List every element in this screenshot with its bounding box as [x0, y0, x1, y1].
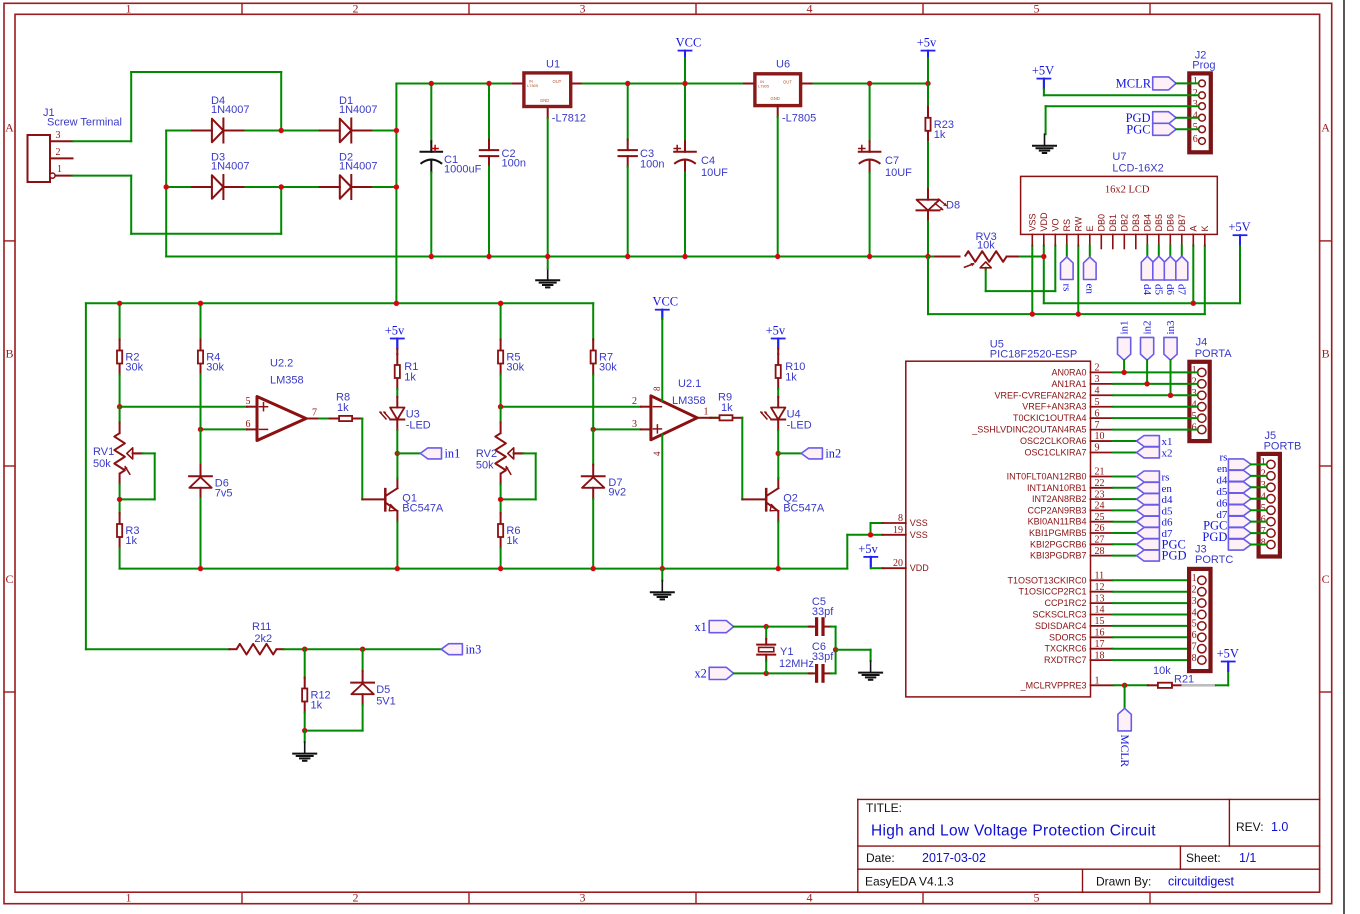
svg-text:RV1: RV1: [93, 446, 114, 458]
ground at U1: [547, 269, 549, 281]
wire bridge row1: [166, 130, 190, 132]
svg-text:d6: d6: [1216, 497, 1228, 509]
wire bridge right vertical to VCC rail: [395, 84, 397, 304]
svg-text:PORTC: PORTC: [1195, 554, 1233, 566]
wire MCLR flag stub: [1124, 685, 1126, 708]
svg-text:BC547A: BC547A: [402, 503, 444, 515]
resistor R8 1k: [330, 418, 340, 420]
svg-text:11: 11: [1095, 571, 1105, 582]
wire J2 pin3 to ground: [1046, 105, 1199, 107]
svg-text:d5: d5: [1216, 486, 1228, 498]
svg-text:24: 24: [1095, 501, 1105, 512]
svg-text:Sheet:: Sheet:: [1186, 851, 1221, 865]
port flags rs en d4 d5 d6 d7 PGC PGD at U5 port B: [1113, 476, 1137, 478]
regulator U6 -L7805: [744, 83, 753, 85]
svg-text:x1: x1: [695, 620, 707, 634]
power +5v at R10: [772, 338, 785, 340]
port flag x1 at crystal: [709, 621, 734, 633]
svg-text:LCD-16X2: LCD-16X2: [1112, 163, 1163, 175]
svg-text:2: 2: [1192, 377, 1197, 388]
svg-text:SCKSCLRC3: SCKSCLRC3: [1032, 610, 1086, 620]
svg-text:100n: 100n: [502, 158, 526, 170]
resistor R11 2k2: [229, 648, 236, 650]
svg-text:4: 4: [1261, 492, 1266, 503]
wire U5 RC to J3: [1113, 579, 1198, 581]
svg-text:4: 4: [807, 891, 813, 905]
svg-text:J4: J4: [1196, 337, 1208, 349]
svg-text:EasyEDA V4.1.3: EasyEDA V4.1.3: [865, 875, 954, 889]
capacitor C6 33pf: [809, 672, 817, 674]
power +5v top: [922, 50, 935, 52]
svg-text:T1OSICCP2RC1: T1OSICCP2RC1: [1018, 587, 1086, 597]
svg-text:5: 5: [1193, 122, 1198, 133]
svg-text:VCC: VCC: [652, 295, 678, 309]
regulator U1 -L7812: [513, 83, 522, 85]
svg-text:OUT: OUT: [553, 79, 562, 84]
svg-text:DB2: DB2: [1120, 214, 1130, 232]
svg-text:6: 6: [1192, 630, 1197, 641]
capacitor C2 100n: [488, 84, 490, 140]
transistor Q1 BC547A: [384, 489, 387, 510]
svg-text:100n: 100n: [640, 159, 664, 171]
svg-text:9v2: 9v2: [608, 487, 626, 499]
svg-text:+5V: +5V: [1217, 646, 1239, 660]
svg-text:Drawn By:: Drawn By:: [1096, 875, 1151, 889]
node RV3/VDD junction: [1041, 254, 1046, 259]
svg-text:3: 3: [56, 130, 61, 141]
wire PGC to J2 pin5: [1176, 128, 1199, 130]
capacitor C5 33pf: [809, 626, 817, 628]
diode D2 1N4007: [318, 186, 340, 188]
svg-text:OUT: OUT: [783, 80, 792, 85]
svg-text:1k: 1k: [785, 372, 797, 384]
svg-text:1: 1: [1192, 365, 1197, 376]
svg-text:10: 10: [1095, 431, 1105, 442]
crystal Y1 12MHz: [765, 627, 767, 639]
svg-text:VREF-CVREFAN2RA2: VREF-CVREFAN2RA2: [994, 390, 1086, 400]
resistor R9 1k: [710, 417, 720, 419]
svg-text:2: 2: [632, 396, 637, 407]
frame column ticks top: [241, 3, 243, 14]
svg-text:22: 22: [1095, 478, 1105, 489]
svg-text:GND: GND: [771, 96, 780, 101]
capacitor C4 10UF: [684, 84, 686, 142]
wire U1 GND: [547, 108, 549, 118]
svg-text:in2: in2: [825, 447, 841, 461]
svg-text:in1: in1: [1119, 320, 1131, 334]
diode D1 1N4007: [318, 130, 340, 132]
svg-text:T0CKIC1OUTRA4: T0CKIC1OUTRA4: [1013, 413, 1087, 423]
svg-text:R21: R21: [1174, 674, 1194, 686]
svg-text:4: 4: [1095, 385, 1100, 396]
U5 port C pins: [1091, 579, 1113, 581]
svg-text:VO: VO: [1051, 218, 1061, 231]
resistor R7 30k: [592, 303, 594, 339]
svg-text:2: 2: [1095, 363, 1100, 374]
wire flag en: [1089, 246, 1091, 257]
svg-text:INT2AN8RB2: INT2AN8RB2: [1032, 494, 1087, 504]
op-amp U2.1 LM358: [651, 396, 697, 440]
svg-text:KBI3PGDRB7: KBI3PGDRB7: [1030, 551, 1087, 561]
svg-text:rs: rs: [1219, 452, 1227, 464]
svg-text:KBI2PGCRB6: KBI2PGCRB6: [1030, 539, 1087, 549]
node Q2 collector junction: [776, 451, 781, 456]
svg-text:3: 3: [580, 2, 586, 16]
ground at R12: [304, 731, 306, 742]
svg-text:Prog: Prog: [1192, 60, 1215, 72]
wire grey segment after R21: [1182, 684, 1216, 687]
svg-text:REV:: REV:: [1236, 820, 1264, 834]
svg-text:1k: 1k: [311, 700, 323, 712]
svg-text:3: 3: [580, 891, 586, 905]
connector J2 Prog: [1189, 73, 1211, 152]
svg-text:d4: d4: [1141, 284, 1153, 296]
svg-text:U2.1: U2.1: [678, 378, 701, 390]
wire left long branch: [85, 303, 87, 649]
svg-text:MCLR: MCLR: [1118, 735, 1130, 768]
svg-text:18: 18: [1095, 650, 1105, 661]
svg-text:1: 1: [1095, 676, 1100, 687]
svg-text:2: 2: [353, 2, 359, 16]
wire Q1 emitter: [396, 511, 398, 521]
svg-text:PIC18F2520-ESP: PIC18F2520-ESP: [990, 348, 1077, 360]
svg-text:Screw Terminal: Screw Terminal: [47, 117, 122, 129]
svg-text:BC547A: BC547A: [783, 503, 825, 515]
svg-text:8: 8: [898, 513, 903, 524]
svg-text:25: 25: [1095, 512, 1105, 523]
port flag PGD: [1153, 112, 1176, 124]
svg-text:+5V: +5V: [1228, 220, 1250, 234]
zener D5 5V1: [362, 649, 364, 671]
IC U7 LCD-16X2: [1021, 176, 1218, 234]
svg-text:KBI1PGMRB5: KBI1PGMRB5: [1029, 528, 1087, 538]
svg-text:_SSHLVDINC2OUTAN4RA5: _SSHLVDINC2OUTAN4RA5: [971, 425, 1086, 435]
svg-text:5: 5: [1034, 891, 1040, 905]
svg-text:C4: C4: [701, 155, 715, 167]
svg-text:d6: d6: [1162, 517, 1174, 529]
svg-text:+5v: +5v: [858, 542, 878, 556]
svg-text:15: 15: [1095, 616, 1105, 627]
title block frame: [858, 798, 1320, 800]
svg-text:6: 6: [1095, 408, 1100, 419]
svg-text:DB7: DB7: [1177, 214, 1187, 232]
svg-text:1/1: 1/1: [1239, 851, 1256, 865]
svg-text:23: 23: [1095, 489, 1105, 500]
port flag PGC: [1153, 123, 1176, 135]
wire Q1 collector: [396, 478, 398, 488]
wire Q2 emitter: [777, 511, 779, 521]
wire J1 pin1 to bridge bottom: [73, 175, 132, 177]
svg-text:20: 20: [893, 558, 903, 569]
wire U2.2 output to R8: [306, 418, 319, 420]
wire left branch to R11: [86, 648, 230, 650]
svg-text:7: 7: [1261, 526, 1266, 537]
LED U4: [777, 397, 779, 408]
svg-text:in3: in3: [1165, 320, 1177, 335]
svg-text:R11: R11: [252, 621, 271, 633]
svg-text:33pf: 33pf: [812, 606, 834, 618]
svg-text:33pf: 33pf: [812, 651, 834, 663]
svg-text:en: en: [1217, 463, 1228, 475]
wire D5 to R12 bottom: [305, 730, 363, 732]
wire U5 RA0-RA5 to J4: [1113, 371, 1198, 373]
svg-text:5: 5: [1095, 397, 1100, 408]
svg-text:INT0FLT0AN12RB0: INT0FLT0AN12RB0: [1007, 472, 1087, 482]
node ground rail junctions: [429, 254, 434, 259]
wire RV1 wiper loop: [133, 452, 143, 454]
svg-text:4: 4: [807, 2, 813, 16]
potentiometer RV3 10k: [935, 256, 959, 258]
svg-text:4: 4: [652, 451, 662, 456]
svg-text:DB6: DB6: [1166, 214, 1176, 232]
svg-text:VSS: VSS: [1028, 213, 1038, 231]
svg-text:TXCKRC6: TXCKRC6: [1044, 644, 1086, 654]
wire R7 to op-amp pin3: [593, 428, 641, 430]
connector J4 PORTA: [1189, 362, 1209, 441]
wire R21 to +5V: [1216, 684, 1228, 686]
wire bridge row2: [166, 186, 190, 188]
svg-text:x2: x2: [695, 667, 707, 681]
svg-text:_MCLRVPPRE3: _MCLRVPPRE3: [1020, 680, 1087, 690]
port flag in1: [420, 448, 441, 459]
svg-text:10k: 10k: [977, 240, 995, 252]
power +5V right of LCD: [1239, 245, 1241, 304]
wire comparator bottom rail: [120, 568, 848, 570]
svg-text:A: A: [1321, 121, 1330, 135]
svg-text:rs: rs: [1060, 284, 1072, 292]
resistor R10 1k: [777, 349, 779, 354]
svg-text:7v5: 7v5: [215, 487, 233, 499]
svg-text:d5: d5: [1152, 284, 1164, 296]
svg-text:1k: 1k: [337, 402, 349, 414]
port flag in2 at U5: [1141, 337, 1154, 360]
svg-text:4: 4: [1193, 111, 1198, 122]
svg-text:4: 4: [1192, 607, 1197, 618]
svg-text:RXDTRC7: RXDTRC7: [1044, 655, 1087, 665]
svg-text:10k: 10k: [1153, 665, 1171, 677]
port flag rs: [1061, 257, 1074, 280]
zener D7 9v2: [592, 429, 594, 464]
svg-text:SDORC5: SDORC5: [1049, 632, 1087, 642]
svg-text:30k: 30k: [599, 362, 617, 374]
LED D8: [927, 189, 929, 200]
svg-text:+5V: +5V: [1032, 64, 1054, 78]
svg-text:-LED: -LED: [406, 420, 431, 432]
potentiometer RV1 50k: [119, 407, 121, 423]
node bridge junctions: [279, 128, 284, 133]
U5 port A pins: [1091, 371, 1113, 373]
svg-text:-L7805: -L7805: [782, 113, 816, 125]
svg-text:d4: d4: [1216, 475, 1228, 487]
resistor R2 30k: [119, 303, 121, 339]
svg-text:9: 9: [1095, 443, 1100, 454]
svg-text:U6: U6: [776, 59, 790, 71]
svg-text:E: E: [1085, 225, 1095, 231]
svg-text:30k: 30k: [506, 362, 524, 374]
wire U2.1 output to R9: [697, 417, 711, 419]
svg-text:C7: C7: [885, 155, 899, 167]
svg-text:VCC: VCC: [676, 36, 702, 50]
resistor R12 1k: [304, 649, 306, 678]
svg-text:L7805: L7805: [758, 83, 770, 88]
svg-text:High and Low Voltage Protectio: High and Low Voltage Protection Circuit: [871, 823, 1156, 840]
svg-text:5: 5: [1261, 503, 1266, 514]
svg-text:K: K: [1200, 225, 1210, 231]
svg-text:1N4007: 1N4007: [339, 161, 378, 173]
resistor R21 10k: [1148, 684, 1158, 686]
svg-text:1N4007: 1N4007: [211, 161, 250, 173]
svg-text:10UF: 10UF: [885, 167, 912, 179]
resistor R5 30k: [500, 303, 502, 339]
svg-text:GND: GND: [540, 98, 549, 103]
svg-text:1000uF: 1000uF: [444, 164, 482, 176]
svg-text:in2: in2: [1142, 320, 1154, 334]
U5 port B pins: [1091, 476, 1113, 478]
power +5V at J2: [1037, 78, 1050, 80]
svg-text:1k: 1k: [404, 372, 416, 384]
diode D4 1N4007: [190, 130, 212, 132]
port flag MCLR at U5: [1118, 708, 1131, 731]
svg-text:5: 5: [1034, 2, 1040, 16]
svg-text:3: 3: [1192, 596, 1197, 607]
svg-text:12MHz: 12MHz: [779, 658, 814, 670]
port flag in2: [801, 448, 822, 459]
svg-text:1: 1: [1193, 76, 1198, 87]
port flag x1 at U5: [1113, 440, 1137, 442]
wire x1 to C5: [734, 626, 812, 628]
diode D3 1N4007: [190, 186, 212, 188]
svg-text:PORTA: PORTA: [1195, 348, 1233, 360]
wire PGD to J2 pin4: [1176, 117, 1199, 119]
svg-text:5V1: 5V1: [376, 696, 396, 708]
svg-text:1: 1: [1192, 573, 1197, 584]
wire flag rs: [1066, 246, 1068, 257]
svg-text:5: 5: [1192, 411, 1197, 422]
svg-text:INT1AN10RB1: INT1AN10RB1: [1027, 483, 1087, 493]
wire RV3 wiper to LCD VO: [985, 270, 987, 292]
svg-text:13: 13: [1095, 593, 1105, 604]
sheet canvas edge: [1343, 0, 1345, 914]
U5 MCLR pin: [1091, 684, 1114, 686]
svg-text:2: 2: [56, 147, 61, 158]
port flags d4 d5 d6 d7 at LCD: [1146, 246, 1148, 257]
svg-text:VREF+AN3RA3: VREF+AN3RA3: [1022, 402, 1086, 412]
svg-text:-L7812: -L7812: [552, 113, 586, 125]
svg-text:TITLE:: TITLE:: [866, 801, 902, 815]
potentiometer RV2 50k: [500, 407, 502, 423]
svg-text:T1OSOT13CKIRC0: T1OSOT13CKIRC0: [1007, 575, 1086, 585]
svg-text:U7: U7: [1112, 151, 1126, 163]
wire top rail: [396, 83, 513, 85]
ground at crystal: [870, 661, 872, 673]
wire VCC mid rail: [86, 302, 593, 304]
svg-text:+5v: +5v: [917, 36, 937, 50]
svg-text:D5: D5: [376, 684, 390, 696]
svg-text:MCLR: MCLR: [1116, 77, 1152, 91]
wire R2 to op-amp pin5: [120, 406, 247, 408]
svg-text:DB3: DB3: [1131, 214, 1141, 232]
svg-text:3: 3: [632, 419, 637, 430]
resistor R4 30k: [200, 303, 202, 339]
port flag in3: [441, 644, 462, 655]
wire to port in2: [778, 452, 801, 454]
svg-text:OSC1CLKIRA7: OSC1CLKIRA7: [1024, 447, 1086, 457]
svg-text:LM358: LM358: [270, 375, 304, 387]
svg-text:circuitdigest: circuitdigest: [1168, 875, 1235, 889]
svg-text:CCP2AN9RB3: CCP2AN9RB3: [1027, 505, 1086, 515]
wire +5V to J2 pin2: [1043, 89, 1045, 95]
resistor R1 1k: [396, 349, 398, 354]
power +5V at R21: [1222, 661, 1235, 663]
svg-text:2: 2: [353, 891, 359, 905]
svg-text:2017-03-02: 2017-03-02: [922, 851, 986, 865]
wire MCLR to J2 pin1: [1176, 82, 1199, 84]
svg-text:en: en: [1083, 284, 1095, 295]
transistor Q2 BC547A: [765, 489, 768, 510]
resistor R6 1k: [500, 513, 502, 524]
svg-text:1k: 1k: [125, 535, 137, 547]
svg-text:2: 2: [1192, 585, 1197, 596]
svg-text:6: 6: [246, 419, 251, 430]
svg-text:in1: in1: [445, 447, 461, 461]
port flag in1 at U5: [1118, 337, 1131, 360]
svg-text:+5v: +5v: [766, 324, 786, 338]
resistor R3 1k: [119, 513, 121, 524]
svg-text:50k: 50k: [93, 458, 111, 470]
svg-text:d4: d4: [1162, 494, 1174, 506]
svg-text:OSC2CLKORA6: OSC2CLKORA6: [1020, 436, 1087, 446]
svg-text:+5v: +5v: [385, 324, 405, 338]
svg-text:6: 6: [1193, 134, 1198, 145]
wire Q2 collector: [777, 478, 779, 488]
wire crystal caps to ground: [833, 647, 838, 652]
svg-text:1: 1: [1261, 457, 1266, 468]
svg-text:Date:: Date:: [866, 851, 895, 865]
wire to port in1: [397, 452, 420, 454]
svg-text:DB4: DB4: [1143, 214, 1153, 232]
wire R5 to op-amp pin2: [501, 406, 641, 408]
svg-text:16: 16: [1095, 628, 1105, 639]
svg-text:27: 27: [1095, 535, 1105, 546]
svg-text:in3: in3: [466, 642, 482, 656]
svg-text:SDISDARC4: SDISDARC4: [1035, 621, 1087, 631]
frame row ticks right: [1320, 240, 1332, 242]
svg-text:RV2: RV2: [476, 448, 497, 460]
svg-text:2: 2: [1193, 88, 1198, 99]
frame column ticks bottom: [241, 892, 243, 904]
svg-text:7: 7: [1192, 642, 1197, 653]
svg-text:30k: 30k: [125, 362, 143, 374]
svg-text:DB0: DB0: [1097, 214, 1107, 232]
capacitor C1 1000uF: [430, 84, 432, 142]
svg-text:30k: 30k: [206, 362, 224, 374]
node Q1 collector junction: [395, 451, 400, 456]
capacitor C3 100n: [627, 84, 629, 140]
wire R11 to in3: [284, 648, 442, 650]
svg-text:14: 14: [1095, 605, 1105, 616]
svg-text:CCP1RC2: CCP1RC2: [1044, 598, 1086, 608]
svg-text:KBI0AN11RB4: KBI0AN11RB4: [1028, 517, 1087, 527]
svg-text:6: 6: [1192, 422, 1197, 433]
svg-text:AN1RA1: AN1RA1: [1051, 379, 1086, 389]
op-amp U2.2 LM358: [257, 397, 306, 441]
U5 VSS VDD pins: [883, 522, 906, 524]
svg-text:10UF: 10UF: [701, 167, 728, 179]
svg-text:2k2: 2k2: [254, 633, 272, 645]
svg-text:A: A: [5, 121, 14, 135]
wire LCD VDD to +5V line: [1043, 246, 1045, 304]
svg-text:1: 1: [126, 2, 132, 16]
